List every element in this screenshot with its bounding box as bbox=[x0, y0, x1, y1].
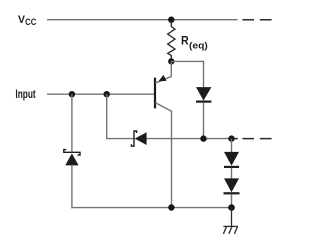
net label VCC bbox=[18, 14, 37, 27]
wire: bottom rail bbox=[71, 207, 231, 209]
wire: left branch to bottom rail bbox=[71, 165, 73, 208]
svg-text:CC: CC bbox=[25, 17, 37, 27]
ground bbox=[223, 226, 237, 234]
wire: VCC rail bbox=[47, 19, 238, 21]
label R(eq) bbox=[181, 34, 208, 51]
diode D_A (clamp to VCC, anode top) bbox=[196, 87, 211, 102]
diode D1 (series to ground) bbox=[224, 152, 239, 167]
wire: schottky output to mid rail bbox=[146, 138, 231, 140]
node: collector / bottom rail bbox=[168, 204, 174, 210]
wire: junction to clamp diode column bbox=[171, 61, 203, 87]
svg-text:R: R bbox=[181, 34, 189, 48]
wire: between D1 and D2 bbox=[231, 168, 233, 179]
transistor Q1 collector bbox=[155, 103, 171, 112]
transistor Q1 emitter arrow (PNP, pointing into base) bbox=[158, 75, 166, 82]
diode D_left (Schottky, pointing up) bbox=[64, 150, 80, 166]
node: resistor / emitter junction bbox=[168, 58, 174, 64]
resistor R(eq) bbox=[168, 21, 175, 59]
node: bottom rail / ground bbox=[228, 204, 235, 211]
wire: D_A cathode down to mid rail bbox=[203, 102, 205, 138]
node: mid rail / series diode column bbox=[228, 135, 234, 141]
wire: left branch down bbox=[71, 94, 73, 151]
wire: node to ground symbol bbox=[231, 208, 233, 227]
wire: mid rail node to D1 bbox=[231, 139, 233, 153]
diode D_mid (Schottky, pointing left) bbox=[131, 131, 146, 146]
wire: collector down to bottom rail bbox=[171, 111, 173, 208]
svg-text:(eq): (eq) bbox=[189, 39, 208, 50]
node: mid rail / D_A cathode bbox=[200, 135, 206, 141]
wire: schottky branch down bbox=[107, 94, 134, 138]
transistor Q1 (PNP) base bar bbox=[154, 78, 156, 109]
diode D2 (series to ground) bbox=[224, 178, 240, 193]
wire: mid rail dashed continuation bbox=[234, 138, 272, 140]
wire: Input line and base wire bbox=[47, 93, 155, 95]
node: VCC / resistor junction bbox=[168, 17, 174, 23]
node: input / schottky branch bbox=[104, 91, 110, 97]
svg-text:V: V bbox=[18, 14, 25, 26]
node: input / left clamp branch bbox=[69, 91, 75, 97]
transistor Q1 emitter bbox=[155, 61, 171, 83]
wire: VCC rail dashed continuation bbox=[242, 19, 271, 21]
wire: D2 to bottom node bbox=[231, 194, 233, 207]
svg-text:Input: Input bbox=[15, 87, 35, 101]
